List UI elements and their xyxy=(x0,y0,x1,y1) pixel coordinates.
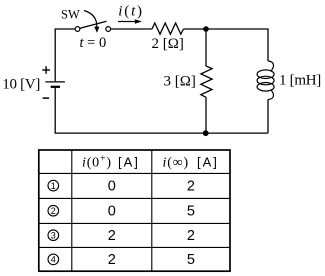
svg-text:i(0+): i(0+) xyxy=(82,154,112,171)
svg-text:3: 3 xyxy=(51,230,56,240)
wire: resistor R2 to node B xyxy=(205,97,207,133)
minus polarity mark xyxy=(43,97,50,99)
svg-text:t = 0: t = 0 xyxy=(80,35,107,51)
svg-text:0: 0 xyxy=(108,203,116,219)
switch closing arc arrow xyxy=(84,11,99,33)
svg-text:2: 2 xyxy=(108,252,116,268)
wire: battery positive up to top-left corner and right to switch terminal xyxy=(55,29,75,81)
svg-text:0: 0 xyxy=(108,178,116,194)
circled row number 1 xyxy=(48,180,59,191)
battery V1 short negative plate xyxy=(51,86,60,88)
svg-text:5: 5 xyxy=(187,203,195,219)
svg-text:5: 5 xyxy=(187,252,195,268)
circled row number 2 xyxy=(48,205,59,216)
svg-text:2: 2 xyxy=(187,178,195,194)
resistor R2 3 ohm zigzag xyxy=(201,66,212,97)
switch SW left terminal xyxy=(75,27,80,32)
svg-text:i(∞): i(∞) xyxy=(163,155,189,170)
svg-text:2 [Ω]: 2 [Ω] xyxy=(152,36,184,52)
node A junction dot xyxy=(203,26,209,32)
current arrow i(t) xyxy=(118,19,142,24)
svg-text:[A]: [A] xyxy=(197,154,219,169)
switch SW blade xyxy=(80,21,107,28)
svg-text:3 [Ω]: 3 [Ω] xyxy=(164,74,196,90)
answer table inner horizontal lines xyxy=(39,173,230,247)
svg-text:i(t): i(t) xyxy=(118,3,144,19)
svg-text:[A]: [A] xyxy=(118,154,140,169)
wire: battery negative down to bottom-left corner and right along bottom xyxy=(55,87,268,133)
svg-text:10 [V]: 10 [V] xyxy=(2,76,40,92)
wire: node A down to resistor R2 xyxy=(205,29,207,66)
answer table inner vertical lines xyxy=(72,150,152,271)
svg-text:1: 1 xyxy=(51,181,56,191)
svg-text:2: 2 xyxy=(108,228,116,244)
svg-text:2: 2 xyxy=(187,228,195,244)
resistor R1 2 ohm zigzag xyxy=(152,23,184,34)
node B junction dot xyxy=(203,130,209,136)
svg-text:2: 2 xyxy=(51,206,56,216)
switch SW right terminal xyxy=(106,27,111,32)
plus polarity mark xyxy=(42,66,50,74)
inductor L1 1 mH coil xyxy=(257,61,274,100)
battery V1 long positive plate xyxy=(45,81,65,83)
svg-text:4: 4 xyxy=(51,255,56,265)
answer table outer border xyxy=(39,150,230,271)
circled row number 3 xyxy=(48,230,59,241)
svg-text:SW: SW xyxy=(61,8,80,22)
circled row number 4 xyxy=(48,254,59,265)
wire: node A to top-right corner and down to inductor xyxy=(206,29,268,61)
wire: inductor bottom to bottom-right corner xyxy=(267,100,269,134)
table data cells xyxy=(108,178,195,268)
wire: resistor R1 to node A xyxy=(184,28,207,30)
svg-text:1 [mH]: 1 [mH] xyxy=(279,73,321,89)
wire: switch right terminal to resistor R1 xyxy=(111,28,152,30)
